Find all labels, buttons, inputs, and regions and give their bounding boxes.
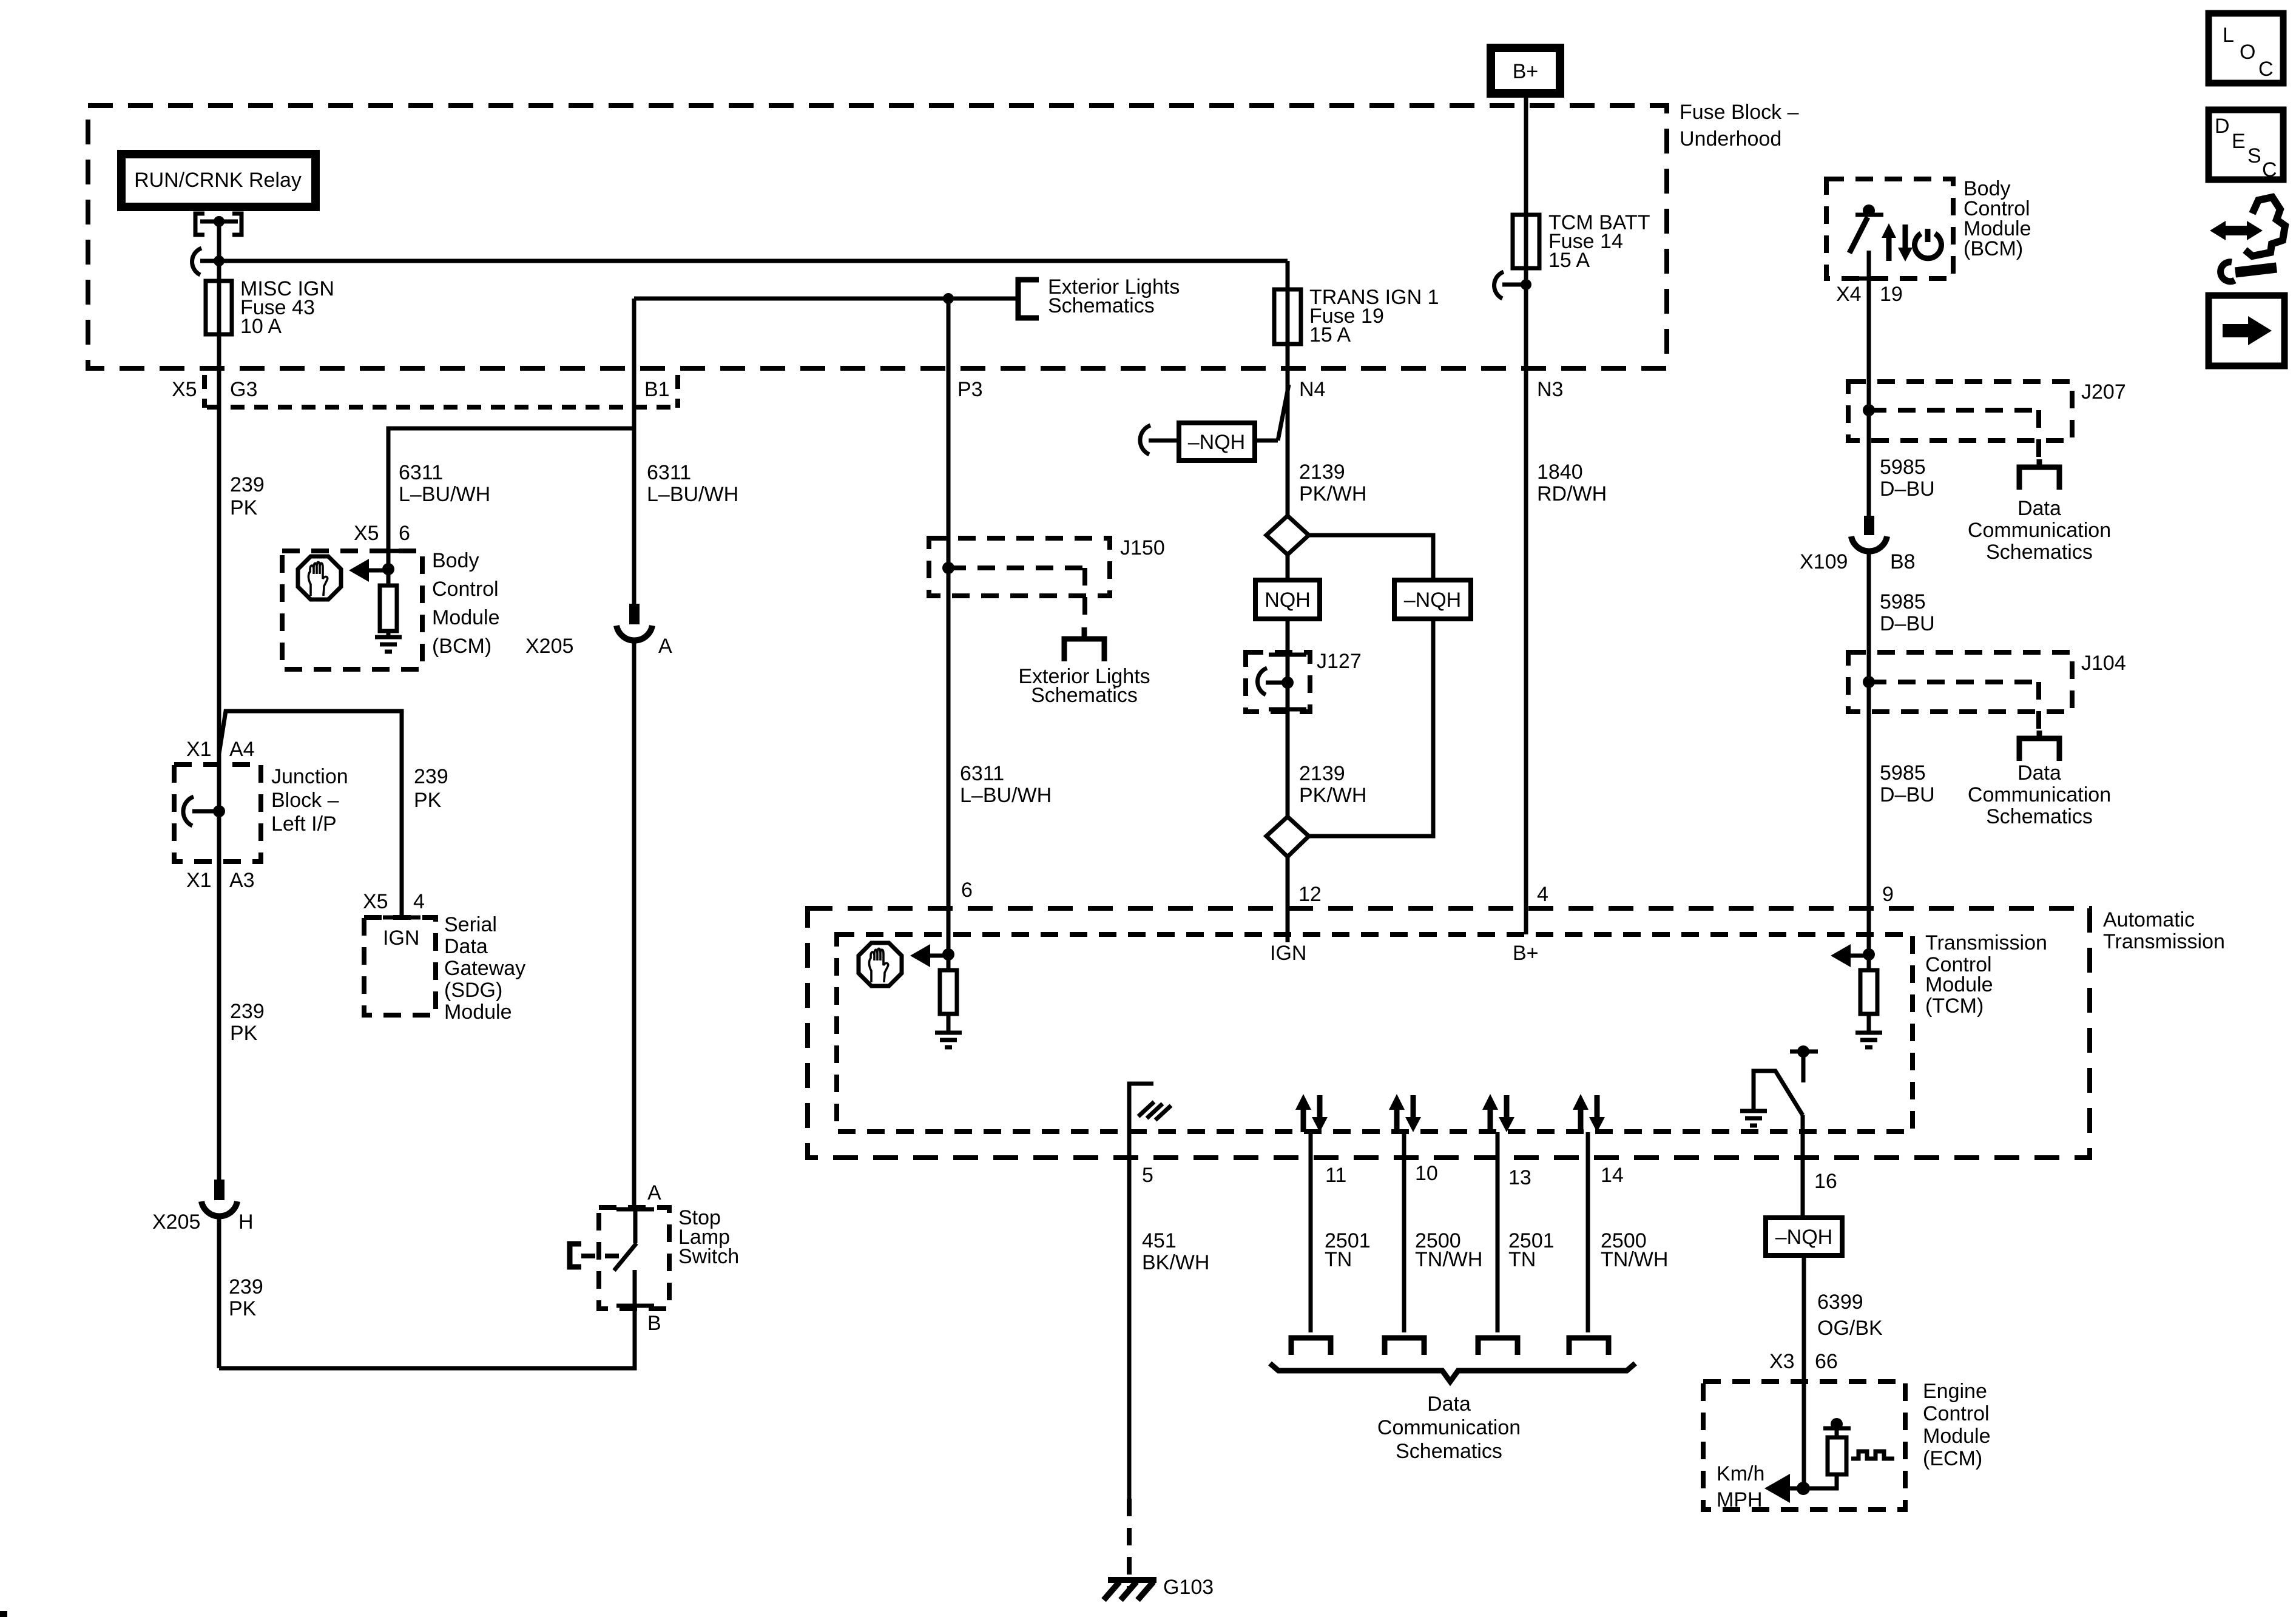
off-page bracket pin 13 xyxy=(1478,1338,1518,1355)
svg-text:Communication: Communication xyxy=(1377,1416,1521,1439)
TCM pin 6 internals: node, arrow, octagon hand xyxy=(910,944,954,967)
label 2139 PK/WH lower xyxy=(1299,762,1366,807)
svg-text:Km/h: Km/h xyxy=(1717,1462,1764,1485)
svg-text:Left I/P: Left I/P xyxy=(271,812,337,836)
splice pack J104 xyxy=(1848,652,2126,970)
off-page bracket pin 10 xyxy=(1385,1338,1424,1355)
module box Body Control Module (BCM) left xyxy=(282,551,422,669)
icon LOC box xyxy=(2209,13,2283,83)
BCM up/down arrows icon xyxy=(1882,223,1913,262)
svg-text:Data: Data xyxy=(2017,497,2061,520)
ground in BCM left xyxy=(375,631,402,652)
TCM pin 5 ground symbol xyxy=(1129,1084,1171,1173)
svg-text:E: E xyxy=(2232,130,2246,153)
label Stop Lamp Switch xyxy=(678,1206,739,1268)
label 6311 L-BU/WH (P3 wire) xyxy=(960,762,1052,807)
svg-text:TN: TN xyxy=(1325,1248,1352,1271)
svg-text:O: O xyxy=(2240,41,2255,64)
tag -NQH right branch xyxy=(1394,580,1471,619)
svg-text:Module: Module xyxy=(1923,1425,1991,1448)
svg-text:12: 12 xyxy=(1298,883,1322,906)
svg-text:239: 239 xyxy=(414,765,448,788)
svg-text:X5: X5 xyxy=(172,378,197,401)
brace for data communication xyxy=(1270,1363,1635,1382)
resistor TCM pin 9 xyxy=(1860,970,1877,1033)
svg-text:Control: Control xyxy=(1923,1402,1990,1425)
wire diamond to NQH tag xyxy=(1286,555,1290,580)
svg-text:TN: TN xyxy=(1508,1248,1536,1271)
svg-text:OG/BK: OG/BK xyxy=(1817,1317,1883,1340)
svg-text:9: 9 xyxy=(1882,883,1894,906)
svg-text:H: H xyxy=(238,1210,254,1234)
svg-text:–NQH: –NQH xyxy=(1775,1226,1832,1249)
svg-text:11: 11 xyxy=(1325,1164,1346,1187)
svg-text:TN/WH: TN/WH xyxy=(1601,1248,1668,1271)
svg-text:S: S xyxy=(2247,144,2261,167)
svg-text:Junction: Junction xyxy=(271,765,348,788)
svg-text:RD/WH: RD/WH xyxy=(1537,482,1607,505)
wire 6399 OG/BK xyxy=(1802,1255,1806,1488)
wire 6311 B1 branch to BCM left xyxy=(388,428,634,551)
wire pin 14 xyxy=(1586,1132,1590,1332)
svg-text:(TCM): (TCM) xyxy=(1925,994,1984,1018)
svg-text:6: 6 xyxy=(961,879,973,902)
ground TCM pin 6 xyxy=(935,1033,962,1047)
TCM serial data arrows pin 14 xyxy=(1573,1094,1605,1132)
svg-text:P3: P3 xyxy=(957,378,983,401)
label 239 PK (SDG branch) xyxy=(414,765,448,812)
svg-text:X1: X1 xyxy=(186,738,212,761)
svg-text:Module: Module xyxy=(444,1001,512,1024)
connector X3 66 xyxy=(1769,1350,1838,1373)
stop hand octagon xyxy=(298,556,341,599)
off-page bracket to Data Communication Schematics (J104) xyxy=(1968,731,2111,828)
dashed wire to G103 xyxy=(1127,1499,1132,1590)
svg-text:Serial: Serial xyxy=(444,913,497,936)
svg-text:2139: 2139 xyxy=(1299,762,1345,785)
connector X1 A3 xyxy=(186,869,255,892)
connector X5 4 at SDG xyxy=(363,890,425,917)
connector X205 A inline xyxy=(525,604,672,1207)
svg-text:B+: B+ xyxy=(1513,60,1539,83)
connector X5 G3 row xyxy=(172,375,678,408)
label 6311 L-BU/WH (main) xyxy=(647,461,738,506)
svg-text:Control: Control xyxy=(432,578,499,601)
label Serial Data Gateway (SDG) Module xyxy=(444,913,525,1024)
connector X5 6 at BCM xyxy=(354,522,410,551)
label Data Communication Schematics (bottom) xyxy=(1377,1393,1521,1463)
speck bottom left xyxy=(0,1611,7,1617)
splice diamond upper xyxy=(1266,516,1309,555)
label Body Control Module (BCM) right xyxy=(1963,177,2031,260)
svg-text:Data: Data xyxy=(2017,761,2061,785)
svg-text:J207: J207 xyxy=(2081,380,2126,403)
svg-text:6311: 6311 xyxy=(960,762,1004,785)
off-page bracket Exterior Lights Schematics (J150) xyxy=(1018,627,1150,707)
svg-text:239: 239 xyxy=(229,1275,263,1298)
svg-text:X5: X5 xyxy=(354,522,379,545)
label Fuse Block - Underhood xyxy=(1680,101,1799,150)
connector X1 A4 xyxy=(186,738,255,761)
wire -NQH branch down to lower diamond xyxy=(1309,619,1433,836)
label 239 PK upper xyxy=(230,473,265,519)
svg-text:19: 19 xyxy=(1880,283,1903,306)
svg-text:IGN: IGN xyxy=(1270,942,1306,965)
svg-text:Schematics: Schematics xyxy=(1031,684,1138,707)
svg-text:X205: X205 xyxy=(152,1210,200,1234)
svg-text:Transmission: Transmission xyxy=(2103,930,2225,953)
ECM output node and arrow Km/h MPH xyxy=(1717,1462,1810,1511)
svg-text:Schematics: Schematics xyxy=(1986,541,2093,564)
off-page bracket Exterior Lights Schematics (top) xyxy=(1018,275,1180,318)
svg-text:PK: PK xyxy=(414,789,442,812)
wire 6311 from exterior lights bus down to B1 xyxy=(632,299,636,428)
wire diamond to -NQH branch xyxy=(1309,535,1433,580)
svg-text:6: 6 xyxy=(399,522,410,545)
svg-text:Schematics: Schematics xyxy=(1986,805,2093,828)
tag NQH xyxy=(1255,580,1320,619)
svg-text:L–BU/WH: L–BU/WH xyxy=(399,483,490,506)
svg-text:15 A: 15 A xyxy=(1548,249,1590,272)
svg-text:X1: X1 xyxy=(186,869,212,892)
wire 6311 down to X205 A xyxy=(632,428,636,604)
wire relay output down to MISC IGN fuse xyxy=(217,235,221,281)
tag -NQH on pin 16 wire xyxy=(1766,1218,1842,1255)
junction node on relay output xyxy=(214,255,225,266)
svg-text:J104: J104 xyxy=(2081,652,2126,675)
svg-text:A3: A3 xyxy=(229,869,255,892)
svg-text:PK/WH: PK/WH xyxy=(1299,784,1366,807)
wire pin 16 down to -NQH xyxy=(1801,1115,1805,1218)
label TRANS IGN 1 Fuse 19 15 A xyxy=(1309,286,1439,346)
svg-text:10 A: 10 A xyxy=(240,315,282,338)
label 451 BK/WH xyxy=(1142,1229,1209,1274)
svg-text:Communication: Communication xyxy=(1968,519,2111,542)
label 6311 L-BU/WH (BCM branch) xyxy=(399,461,490,506)
wire relay bus to TRANS IGN fuse xyxy=(219,259,1288,263)
relay K? RUN/CRNK Relay labeled box xyxy=(121,154,316,207)
svg-text:X4: X4 xyxy=(1836,283,1862,306)
svg-text:N3: N3 xyxy=(1537,378,1563,401)
label 2501 TN (11) xyxy=(1325,1229,1371,1271)
svg-text:RUN/CRNK Relay: RUN/CRNK Relay xyxy=(134,169,302,192)
svg-text:X109: X109 xyxy=(1800,550,1848,573)
svg-text:NQH: NQH xyxy=(1264,589,1311,612)
svg-text:Block –: Block – xyxy=(271,789,339,812)
svg-text:L–BU/WH: L–BU/WH xyxy=(647,483,738,506)
icon DESC box xyxy=(2209,110,2283,181)
label Junction Block - Left I/P xyxy=(271,765,348,836)
splice diamond lower xyxy=(1266,817,1309,857)
svg-text:Switch: Switch xyxy=(678,1245,739,1268)
svg-text:C: C xyxy=(2258,58,2274,81)
clip and -NQH tag on N4 wire xyxy=(1140,385,1289,461)
label 5985 D-BU second xyxy=(1880,590,1935,635)
svg-text:PK/WH: PK/WH xyxy=(1299,482,1366,505)
wire B+ down to TCM BATT fuse xyxy=(1524,93,1528,369)
svg-text:D–BU: D–BU xyxy=(1880,783,1935,806)
label 2500 TN/WH (10) xyxy=(1415,1229,1482,1271)
svg-text:4: 4 xyxy=(413,890,425,913)
wire pin 11 xyxy=(1309,1132,1313,1332)
svg-text:6311: 6311 xyxy=(399,461,443,484)
module box Transmission Control Module (TCM) dashed xyxy=(837,934,1913,1132)
resistor in BCM left xyxy=(380,586,397,631)
svg-text:Body: Body xyxy=(432,549,479,572)
svg-text:B+: B+ xyxy=(1513,942,1539,965)
clip symbol on relay output xyxy=(192,248,219,275)
svg-text:TN/WH: TN/WH xyxy=(1415,1248,1482,1271)
label TCM BATT Fuse 14 15 A xyxy=(1548,211,1650,272)
svg-text:Schematics: Schematics xyxy=(1396,1440,1502,1463)
TCM serial data arrows pin 11 xyxy=(1295,1094,1328,1132)
clip symbol in junction block xyxy=(183,797,225,826)
wire pin 13 xyxy=(1496,1132,1500,1332)
svg-text:Communication: Communication xyxy=(1968,783,2111,806)
junction block left I/P dashed box xyxy=(174,765,261,862)
svg-text:Automatic: Automatic xyxy=(2103,908,2195,931)
svg-text:–NQH: –NQH xyxy=(1404,589,1461,612)
svg-text:X5: X5 xyxy=(363,890,388,913)
ground G103 chassis symbol xyxy=(1104,1576,1214,1600)
svg-text:B1: B1 xyxy=(644,378,670,401)
label 239 PK bottom xyxy=(229,1275,263,1320)
svg-text:J127: J127 xyxy=(1317,650,1362,673)
svg-text:IGN: IGN xyxy=(383,927,419,950)
stop hand octagon in TCM xyxy=(859,943,902,986)
off-page bracket pin 14 xyxy=(1569,1338,1609,1355)
svg-text:X205: X205 xyxy=(525,635,573,658)
label 2139 PK/WH upper xyxy=(1299,461,1366,505)
svg-text:Data: Data xyxy=(1427,1393,1471,1416)
svg-text:Schematics: Schematics xyxy=(1048,294,1155,317)
svg-text:G103: G103 xyxy=(1163,1576,1214,1599)
svg-text:6399: 6399 xyxy=(1817,1291,1863,1314)
svg-text:5985: 5985 xyxy=(1880,456,1926,479)
automatic transmission outer dashed box xyxy=(808,908,2090,1158)
label 6399 OG/BK xyxy=(1817,1291,1883,1340)
fuse TCM BATT Fuse 14 xyxy=(1513,215,1539,268)
icon diagnostic arrows and wrench xyxy=(2210,197,2285,282)
fuse TRANS IGN 1 Fuse 19 xyxy=(1274,261,1301,369)
svg-text:Module: Module xyxy=(432,606,500,629)
wire NQH to J127 xyxy=(1286,619,1290,817)
fuse block underhood dashed box xyxy=(88,106,1667,368)
svg-text:Data: Data xyxy=(444,935,488,958)
ground at TCM transistor xyxy=(1740,1111,1767,1126)
svg-text:D–BU: D–BU xyxy=(1880,612,1935,635)
wire 451 BK/WH down xyxy=(1127,1173,1132,1499)
wire diamond to TCM pin 12 xyxy=(1286,857,1290,942)
svg-text:451: 451 xyxy=(1142,1229,1177,1252)
svg-text:1840: 1840 xyxy=(1537,461,1583,484)
svg-text:C: C xyxy=(2262,158,2277,181)
connector X4 19 xyxy=(1836,279,1903,382)
svg-text:PK: PK xyxy=(230,496,258,519)
svg-text:L–BU/WH: L–BU/WH xyxy=(960,784,1052,807)
fuse MISC IGN Fuse 43 xyxy=(206,281,232,369)
TCM serial data arrows pin 13 xyxy=(1482,1094,1514,1132)
svg-text:2139: 2139 xyxy=(1299,461,1345,484)
wire 239 PK down to X205 H xyxy=(217,862,221,1180)
svg-text:6311: 6311 xyxy=(647,461,691,484)
svg-text:D–BU: D–BU xyxy=(1880,478,1935,501)
svg-text:Engine: Engine xyxy=(1923,1380,1987,1403)
splice pack J127 xyxy=(1246,650,1362,712)
svg-text:N4: N4 xyxy=(1299,378,1325,401)
power feed B+ box xyxy=(1491,48,1560,93)
TCM output transistor to pin 16 xyxy=(1754,1045,1818,1115)
label 5985 D-BU first xyxy=(1880,456,1935,501)
svg-text:A: A xyxy=(658,635,672,658)
wire 2139 PK/WH from N4 down to diamond xyxy=(1286,369,1290,516)
svg-text:A: A xyxy=(647,1181,661,1204)
label 2501 TN (13) xyxy=(1508,1229,1555,1271)
svg-text:PK: PK xyxy=(230,1022,258,1045)
relay contact symbol xyxy=(195,214,241,261)
svg-text:A4: A4 xyxy=(229,738,255,761)
label Engine Control Module (ECM) xyxy=(1923,1380,1991,1470)
svg-text:–NQH: –NQH xyxy=(1188,431,1245,454)
label MISC IGN Fuse 43 10 A xyxy=(240,277,334,338)
wire 239 PK from G3 down to junction block xyxy=(217,369,221,1180)
ECM internal resistor and node xyxy=(1786,1418,1851,1488)
svg-text:(ECM): (ECM) xyxy=(1923,1447,1982,1470)
splice pack J207 xyxy=(1848,380,2126,516)
svg-text:(BCM): (BCM) xyxy=(1963,237,2023,260)
connector X109 B8 inline xyxy=(1800,516,1916,652)
svg-text:239: 239 xyxy=(230,1000,265,1023)
BCM switch symbol xyxy=(1849,204,1883,279)
label Transmission Control Module (TCM) xyxy=(1925,931,2047,1018)
svg-text:J150: J150 xyxy=(1120,536,1165,559)
svg-text:10: 10 xyxy=(1415,1162,1438,1185)
svg-text:(SDG): (SDG) xyxy=(444,979,502,1002)
clip symbol below TCM BATT fuse xyxy=(1494,272,1531,299)
label 239 PK lower xyxy=(230,1000,265,1045)
label 1840 RD/WH xyxy=(1537,461,1607,505)
module box Serial Data Gateway (SDG) xyxy=(364,917,436,1015)
TCM serial data arrows pin 10 xyxy=(1389,1094,1421,1132)
svg-text:B: B xyxy=(647,1312,661,1335)
svg-text:66: 66 xyxy=(1815,1350,1838,1373)
svg-text:B8: B8 xyxy=(1890,550,1916,573)
wire internal bus to exterior lights reference xyxy=(634,293,1017,304)
svg-text:D: D xyxy=(2215,115,2230,138)
svg-text:5: 5 xyxy=(1142,1164,1153,1187)
resistor TCM pin 6 xyxy=(940,970,957,1033)
label Body Control Module (BCM) left xyxy=(432,549,500,658)
switch S? Stop Lamp Switch dashed box xyxy=(599,1207,669,1309)
BCM power icon xyxy=(1915,229,1942,258)
module box Body Control Module (BCM) right xyxy=(1826,179,1953,279)
splice pack J150 xyxy=(929,369,1165,970)
svg-text:5985: 5985 xyxy=(1880,590,1926,613)
switch actuator E symbol xyxy=(570,1244,626,1267)
svg-text:14: 14 xyxy=(1601,1164,1624,1187)
svg-text:BK/WH: BK/WH xyxy=(1142,1251,1209,1274)
svg-text:Gateway: Gateway xyxy=(444,957,525,980)
TCM pin 9 internals: node, arrow xyxy=(1831,944,1875,967)
label Automatic Transmission xyxy=(2103,908,2225,953)
svg-text:G3: G3 xyxy=(230,378,257,401)
svg-text:13: 13 xyxy=(1508,1166,1531,1189)
svg-text:4: 4 xyxy=(1537,883,1548,906)
svg-text:Module: Module xyxy=(1925,973,1993,996)
off-page bracket pin 11 xyxy=(1291,1338,1331,1355)
svg-text:PK: PK xyxy=(229,1297,257,1320)
wire junction block branch to SDG xyxy=(219,711,402,917)
svg-text:X3: X3 xyxy=(1769,1350,1795,1373)
icon forward arrow box xyxy=(2209,295,2284,366)
svg-text:MPH: MPH xyxy=(1717,1488,1763,1511)
wire P3 branch down from bus xyxy=(947,299,951,369)
svg-text:239: 239 xyxy=(230,473,265,496)
module box Engine Control Module (ECM) xyxy=(1703,1382,1905,1510)
wire bottom loop stop lamp B to X205 H xyxy=(219,1306,635,1368)
wire pin 10 xyxy=(1402,1132,1406,1332)
wire 1840 RD/WH from N3 to TCM pin 4 xyxy=(1524,369,1528,934)
svg-text:L: L xyxy=(2223,24,2234,47)
svg-text:16: 16 xyxy=(1814,1170,1837,1193)
off-page bracket to Data Communication Schematics (J207) xyxy=(1968,459,2111,564)
svg-text:Transmission: Transmission xyxy=(1925,931,2047,954)
label 5985 D-BU third xyxy=(1880,761,1935,806)
label 2500 TN/WH (14) xyxy=(1601,1229,1668,1271)
svg-text:15 A: 15 A xyxy=(1309,323,1351,346)
svg-text:Underhood: Underhood xyxy=(1680,127,1781,150)
svg-text:Fuse Block –: Fuse Block – xyxy=(1680,101,1799,124)
svg-text:(BCM): (BCM) xyxy=(432,635,491,658)
ECM PWM waveform symbol xyxy=(1851,1451,1894,1459)
svg-text:5985: 5985 xyxy=(1880,761,1926,785)
ground TCM pin 9 xyxy=(1855,1033,1882,1047)
stop lamp switch blade xyxy=(614,1209,636,1306)
connector X205 H inline xyxy=(152,1180,254,1368)
BCM left internals: wire, node, arrow xyxy=(349,551,394,586)
